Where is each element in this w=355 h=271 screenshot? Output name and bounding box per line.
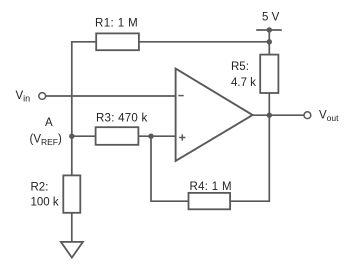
wire: op-amp output to V_out terminal [253,114,304,116]
svg-text:R3: 470 k: R3: 470 k [96,113,147,125]
terminal: V_out open circle [304,112,311,119]
label R1 value [95,18,138,30]
svg-text:R1: 1 M: R1: 1 M [95,18,138,30]
node A label [45,117,53,129]
wire: feedback node down and right to R4 left lead [151,136,189,201]
wire: R3 right lead to op-amp non-inverting input [138,135,175,137]
wire: node A to R3 left lead [72,135,96,137]
terminal: V_in open circle [39,93,46,100]
wire: R2 bottom down to ground [71,213,73,242]
svg-text:5 V: 5 V [262,12,280,24]
resistor R3 [96,127,139,145]
svg-text:R4: 1 M: R4: 1 M [190,181,232,193]
label R3 value [96,113,147,125]
wire: R5 bottom down to output node [268,93,270,115]
label V_in [16,90,31,104]
label R5 value [231,77,256,89]
resistor R2 [63,175,80,212]
label V_REF [30,134,63,148]
node: R3-R4-plus-input junction dot [148,134,153,139]
label R5 designator [231,61,249,73]
wire: node A down to R2 top [71,136,73,175]
node A junction dot [69,134,74,139]
svg-text:100 k: 100 k [31,197,59,209]
svg-text:Vout: Vout [319,110,339,124]
wire: V_in horizontal line to op-amp inverting input [46,95,176,97]
node: 5V rail / R1 junction dot [267,39,272,44]
op-amp U1 [176,69,253,161]
svg-text:4.7 k: 4.7 k [231,77,256,89]
label R2 designator [31,182,49,194]
label R2 value [31,197,59,209]
wire: 5V terminal bar [256,29,282,31]
wire: 5V terminal vertical down to R5 top [268,30,270,55]
svg-text:(VREF): (VREF) [30,134,63,148]
wire: output node down and left to R4 right lead [230,115,269,201]
ground [61,242,83,258]
svg-text:A: A [45,117,53,129]
wire: R1 right lead to 5V rail [139,41,269,43]
label R4 value [190,181,232,193]
svg-text:R5:: R5: [231,61,249,73]
node: output junction dot [267,113,272,118]
resistor R4 [189,193,231,209]
wire: R1 left lead and left vertical rail down to node A [72,42,96,136]
svg-text:Vin: Vin [16,90,31,104]
node: 5V terminal dot [267,27,272,32]
label V_out [319,110,339,124]
resistor R5 [260,55,278,93]
resistor R1 [96,33,139,50]
svg-text:R2:: R2: [31,182,49,194]
label 5V [262,12,280,24]
